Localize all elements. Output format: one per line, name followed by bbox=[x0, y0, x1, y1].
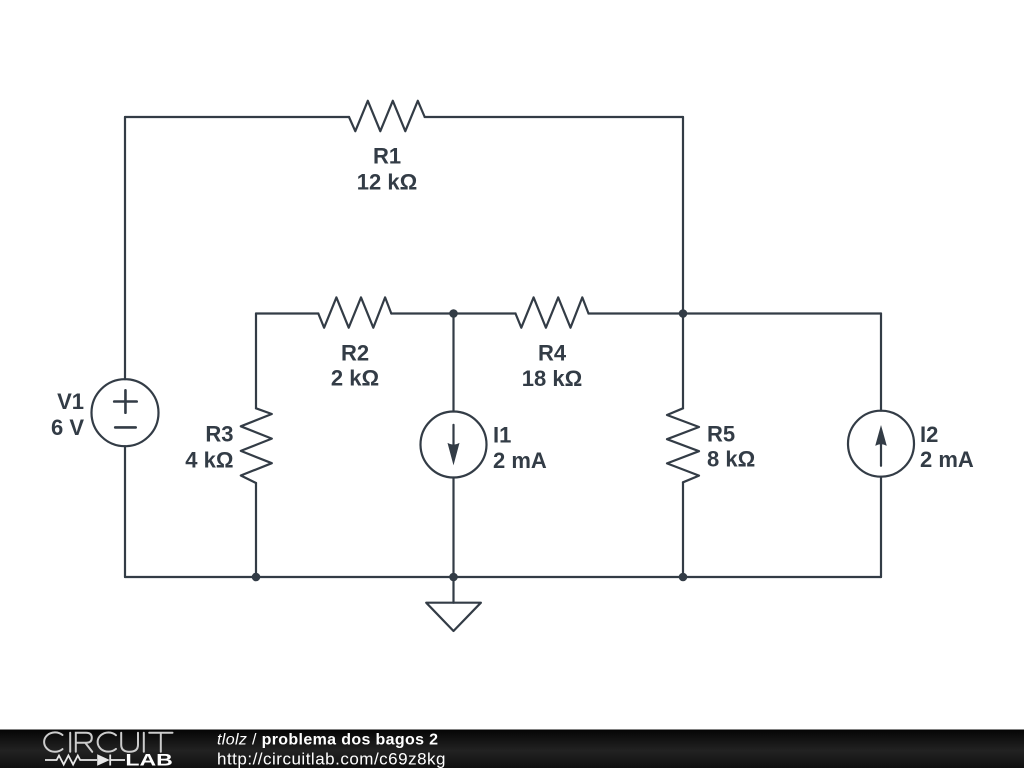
svg-text:R5: R5 bbox=[707, 422, 735, 447]
wire I1 branch lower bbox=[452, 478, 454, 578]
current source I2 bbox=[848, 411, 914, 477]
wire right branch upper bbox=[682, 117, 684, 314]
svg-text:R1: R1 bbox=[373, 144, 401, 169]
resistor R4 bbox=[516, 297, 589, 327]
wire left branch lower bbox=[124, 446, 126, 577]
svg-text:http://circuitlab.com/c69z8kg: http://circuitlab.com/c69z8kg bbox=[217, 749, 446, 768]
svg-text:6 V: 6 V bbox=[51, 415, 84, 440]
wire top-left horizontal bbox=[125, 116, 349, 118]
svg-text:8 kΩ: 8 kΩ bbox=[707, 447, 755, 472]
wire middle right horizontal bbox=[589, 312, 684, 314]
svg-text:tlolz / problema dos bagos 2: tlolz / problema dos bagos 2 bbox=[217, 732, 438, 749]
svg-text:R2: R2 bbox=[341, 341, 369, 366]
wire I1 branch upper bbox=[452, 314, 454, 412]
svg-text:12 kΩ: 12 kΩ bbox=[357, 170, 417, 195]
resistor R5 bbox=[667, 408, 699, 482]
svg-text:2 mA: 2 mA bbox=[493, 448, 547, 473]
wire middle between R2 and R4 bbox=[391, 312, 515, 314]
wire I2 branch upper bbox=[880, 314, 882, 411]
wire top-right horizontal bbox=[425, 116, 683, 118]
node junction I1 top bbox=[449, 309, 458, 318]
wire middle to I2 branch bbox=[683, 312, 881, 314]
wire I2 branch lower bbox=[880, 477, 882, 577]
footer bar bbox=[0, 730, 1024, 768]
svg-text:V1: V1 bbox=[57, 389, 84, 414]
node junction R3 bottom bbox=[252, 573, 261, 582]
wire middle left horizontal bbox=[256, 312, 318, 314]
wire bottom horizontal bbox=[125, 576, 881, 578]
CircuitLab logo CIRCUIT bbox=[44, 732, 172, 751]
svg-text:4 kΩ: 4 kΩ bbox=[185, 448, 233, 473]
svg-text:2 kΩ: 2 kΩ bbox=[331, 366, 379, 391]
wire right branch middle bbox=[682, 314, 684, 409]
wire R3 branch upper bbox=[255, 314, 257, 409]
svg-text:2 mA: 2 mA bbox=[920, 447, 974, 472]
CircuitLab logo resistor-diode symbol bbox=[45, 755, 125, 766]
resistor R3 bbox=[241, 408, 272, 483]
svg-text:R4: R4 bbox=[538, 341, 567, 366]
current source I1 bbox=[421, 412, 487, 478]
svg-text:LAB: LAB bbox=[125, 752, 173, 768]
node junction R5 top bbox=[679, 309, 688, 318]
svg-text:R3: R3 bbox=[205, 421, 233, 446]
svg-text:I2: I2 bbox=[920, 422, 938, 447]
resistor R2 bbox=[318, 297, 391, 327]
ground bbox=[426, 577, 481, 631]
wire left branch upper bbox=[124, 117, 126, 379]
voltage source V1 bbox=[92, 379, 159, 446]
wire R3 branch lower bbox=[255, 483, 257, 577]
svg-text:I1: I1 bbox=[493, 422, 511, 447]
resistor R1 bbox=[349, 101, 425, 131]
svg-text:18 kΩ: 18 kΩ bbox=[522, 366, 582, 391]
node junction R5 bottom bbox=[679, 573, 688, 582]
wire right branch lower bbox=[682, 482, 684, 577]
node junction I1 bottom bbox=[449, 573, 458, 582]
